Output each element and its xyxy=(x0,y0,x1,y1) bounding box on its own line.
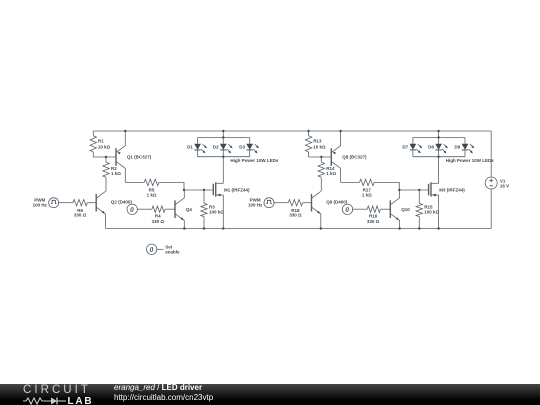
wire PWM to R18 xyxy=(274,202,288,204)
LED D8 xyxy=(428,138,448,157)
transistor Q8 xyxy=(331,146,367,169)
resistor R1 10 kΩ xyxy=(90,131,111,157)
wire R14 to Q9 collector xyxy=(320,177,322,191)
wire LED feed from top rail xyxy=(222,131,224,138)
resistor R6 330 Ω xyxy=(73,200,87,218)
wire LED bottom bus xyxy=(198,156,250,158)
svg-text:High Power 10W LEDs: High Power 10W LEDs xyxy=(230,158,279,163)
wire M3 source to bottom rail xyxy=(438,195,440,229)
wire gate line xyxy=(374,182,399,190)
svg-text:1 kΩ: 1 kΩ xyxy=(111,171,121,176)
LED D3 xyxy=(239,138,259,157)
svg-text:M1 (IRFZ44): M1 (IRFZ44) xyxy=(224,188,250,193)
junction LED top bus xyxy=(437,136,439,138)
svg-text:10 kΩ: 10 kΩ xyxy=(98,145,111,150)
wire right rail bottom xyxy=(490,189,492,229)
svg-text:D9: D9 xyxy=(455,145,461,150)
footer bar xyxy=(0,384,540,405)
junction pulldown node xyxy=(418,189,420,191)
LED D1 xyxy=(187,138,207,157)
junction top rail LED feed xyxy=(222,130,224,132)
junction bottom rail xyxy=(183,227,185,229)
svg-text:D1: D1 xyxy=(187,145,193,150)
wire right rail top xyxy=(490,131,492,177)
wire LED bottom bus xyxy=(413,156,465,158)
transistor Q4 xyxy=(175,198,192,221)
attribution text xyxy=(114,383,213,403)
svg-text:10 kΩ: 10 kΩ xyxy=(313,145,326,150)
wire R4 to Q4 base xyxy=(165,208,175,210)
junction base node xyxy=(320,156,322,158)
resistor R2 1 kΩ xyxy=(103,157,121,177)
junction LED bottom bus xyxy=(437,156,439,158)
svg-text:Q2 (D400): Q2 (D400) xyxy=(111,199,133,204)
transistor Q9 xyxy=(312,191,348,214)
wire Q9 emitter to bottom rail xyxy=(320,214,322,229)
source 0 V set xyxy=(127,204,137,214)
wire Q8 collector down xyxy=(340,168,342,182)
resistor R4 330 Ω xyxy=(152,206,165,224)
svg-text:Q10: Q10 xyxy=(401,207,410,212)
wire top supply rail xyxy=(93,130,491,132)
wire bottom ground rail xyxy=(106,228,492,230)
wire R2 to Q2 collector xyxy=(105,177,107,191)
resistor R3 100 kΩ xyxy=(201,190,224,229)
junction emitter / top rail xyxy=(124,130,126,132)
junction pulldown node xyxy=(203,189,205,191)
junction top rail LED feed xyxy=(437,130,439,132)
LED D9 xyxy=(455,138,475,157)
svg-text:D2: D2 xyxy=(213,145,219,150)
wire Q4 collector up xyxy=(183,190,185,198)
label Set enable xyxy=(165,245,180,255)
svg-text:M3 (IRFZ44): M3 (IRFZ44) xyxy=(439,188,465,193)
junction gate node xyxy=(183,189,185,191)
svg-text:100 Hz: 100 Hz xyxy=(33,202,48,207)
svg-text:R13: R13 xyxy=(313,139,322,144)
wire LED top bus xyxy=(198,137,250,139)
LED D2 xyxy=(213,138,233,157)
svg-text:330 Ω: 330 Ω xyxy=(367,219,380,224)
wire M1 source to bottom rail xyxy=(222,195,224,229)
svg-text:D8: D8 xyxy=(428,145,434,150)
wire base node to Q8 xyxy=(309,156,332,158)
svg-text:enable: enable xyxy=(165,250,180,255)
junction base node xyxy=(105,156,107,158)
resistor R14 1 kΩ xyxy=(318,157,336,177)
wire Q1 emitter to top rail xyxy=(124,131,126,146)
svg-text:330 Ω: 330 Ω xyxy=(289,213,302,218)
wire enable flag xyxy=(157,248,164,250)
LED D7 xyxy=(402,138,422,157)
source PWM 100 Hz xyxy=(248,197,274,207)
junction gate node xyxy=(398,189,400,191)
wire R16 to Q10 base xyxy=(380,208,390,210)
wire R18 to Q9 base xyxy=(303,202,312,204)
wire M1 drain up to LEDs xyxy=(222,157,224,184)
MOSFET M3 xyxy=(429,182,466,196)
wire Q10 emitter to bottom rail xyxy=(399,220,401,228)
wire M3 drain up to LEDs xyxy=(438,157,440,184)
svg-text:1 kΩ: 1 kΩ xyxy=(147,193,157,198)
resistor R16 330 Ω xyxy=(367,206,380,224)
svg-text:D7: D7 xyxy=(402,145,408,150)
wire Q4 emitter to bottom rail xyxy=(183,220,185,228)
svg-text:0: 0 xyxy=(150,246,154,254)
svg-text:100 kΩ: 100 kΩ xyxy=(424,210,439,215)
source 0 V enable flag xyxy=(147,244,157,254)
svg-text:0: 0 xyxy=(345,206,349,214)
wire PWM to R6 xyxy=(59,202,73,204)
svg-text:Q1 (BC327): Q1 (BC327) xyxy=(127,155,152,160)
svg-text:D3: D3 xyxy=(239,145,245,150)
junction bottom rail xyxy=(398,227,400,229)
svg-text:1 kΩ: 1 kΩ xyxy=(326,171,336,176)
svg-text:16 V: 16 V xyxy=(500,183,509,188)
transistor Q2 xyxy=(96,191,132,214)
svg-text:R1: R1 xyxy=(98,139,104,144)
CircuitLab logo xyxy=(23,386,91,395)
junction emitter / top rail xyxy=(339,130,341,132)
resistor R13 10 kΩ xyxy=(305,131,326,157)
wire gate line xyxy=(159,182,184,190)
wire LED feed from top rail xyxy=(438,131,440,138)
svg-text:High Power 10W LEDs: High Power 10W LEDs xyxy=(446,158,495,163)
svg-text:330 Ω: 330 Ω xyxy=(74,213,87,218)
svg-text:0: 0 xyxy=(130,206,134,214)
transistor Q1 xyxy=(116,146,152,169)
source 0 V set xyxy=(342,204,352,214)
wire R6 to Q2 base xyxy=(87,202,96,204)
MOSFET M1 xyxy=(213,182,250,196)
svg-text:330 Ω: 330 Ω xyxy=(152,219,165,224)
wire 0 source to R4 xyxy=(137,208,152,210)
resistor R15 100 kΩ xyxy=(416,190,439,229)
junction Q9 emitter / bottom rail xyxy=(320,227,322,229)
voltage source V1 16 V xyxy=(485,177,509,189)
svg-text:1 kΩ: 1 kΩ xyxy=(362,193,372,198)
resistor R5 1 kΩ xyxy=(125,179,159,197)
wire Q2 emitter to bottom rail xyxy=(105,214,107,229)
svg-text:100 Hz: 100 Hz xyxy=(248,202,263,207)
wire LED top bus xyxy=(413,137,465,139)
transistor Q10 xyxy=(390,198,410,221)
junction LED top bus xyxy=(222,136,224,138)
resistor R17 1 kΩ xyxy=(341,179,375,197)
wire base node to Q1 xyxy=(93,156,116,158)
svg-text:Q8 (BC327): Q8 (BC327) xyxy=(342,155,367,160)
wire Q10 collector up xyxy=(399,190,401,198)
resistor R18 330 Ω xyxy=(288,200,302,218)
wire Q8 emitter to top rail xyxy=(340,131,342,146)
junction LED bottom bus xyxy=(222,156,224,158)
wire Q1 collector down xyxy=(124,168,126,182)
svg-text:Q4: Q4 xyxy=(186,207,193,212)
source PWM 100 Hz xyxy=(33,197,59,207)
wire 0 source to R16 xyxy=(353,208,368,210)
svg-text:Q9 (D400): Q9 (D400) xyxy=(326,199,348,204)
svg-text:100 kΩ: 100 kΩ xyxy=(209,210,224,215)
junction R13 / top rail xyxy=(307,130,309,132)
